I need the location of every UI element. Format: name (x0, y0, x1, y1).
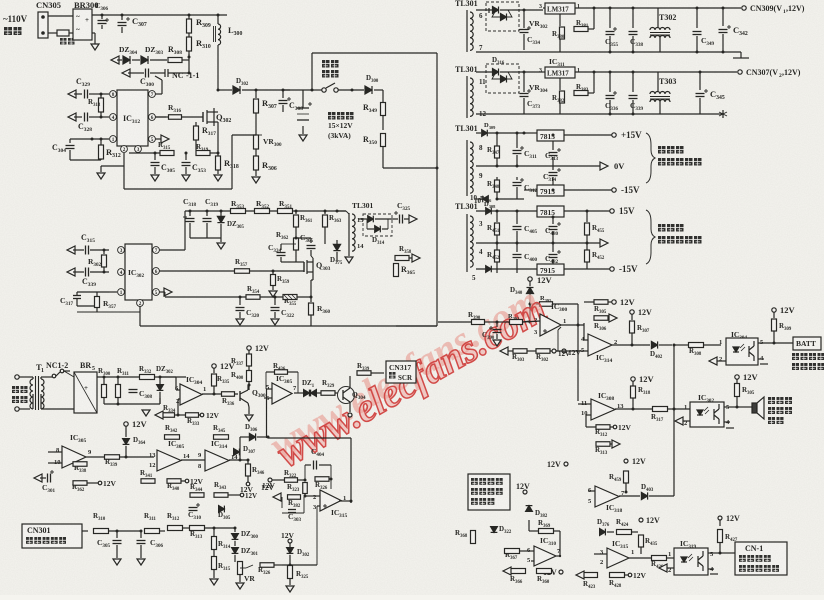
wire gnd row E1 (104, 403, 133, 405)
capacitor C405 (516, 210, 519, 213)
connector CN305 (38, 12, 48, 38)
resistor R335 (213, 368, 215, 373)
resistor R453 (586, 243, 588, 250)
resistor R365b (395, 247, 397, 262)
capacitor C313 (552, 134, 555, 137)
text battery low alarm (768, 397, 775, 404)
pot VR bottom (238, 562, 243, 575)
IC302 pin5 (153, 289, 160, 296)
capacitor C305b (116, 530, 119, 533)
wire row 211 (185, 210, 346, 212)
fuse F300 (48, 32, 57, 34)
wire Q304 emitter (349, 407, 351, 412)
opto2 emitter gnd (724, 421, 730, 423)
diode pair s2 (476, 71, 496, 73)
resistor R435 (640, 522, 642, 528)
resistor R319 (196, 151, 210, 156)
connector BATT box (793, 337, 821, 350)
wire to CN1 (720, 552, 735, 554)
resistor R305d (736, 379, 738, 383)
resistor R381 (574, 27, 588, 32)
IC318 wires (588, 490, 595, 492)
connector CN-1 box (735, 542, 787, 575)
opto3 emitter gnd (708, 568, 714, 570)
capacitor C342 (722, 7, 725, 10)
wire drain (214, 111, 218, 113)
wire IC318 left (568, 463, 588, 465)
resistor R315c (212, 557, 217, 570)
wire C317 loop (77, 291, 109, 293)
wire VR tap (232, 134, 256, 136)
wire C304 loop (70, 138, 92, 140)
bridge rectifier BR300 (73, 9, 92, 40)
opto LED (733, 347, 739, 352)
wire from bridge (92, 14, 227, 16)
text charge voltage (792, 353, 799, 360)
capacitor C480 (552, 216, 555, 219)
capacitor C336 (609, 71, 612, 74)
output -15V (612, 188, 616, 192)
relay contact NC-1-1 (160, 72, 165, 74)
IC314b wires (229, 459, 248, 461)
wire bottom s3 (476, 198, 537, 200)
wire node row3 (213, 527, 216, 530)
resistor R313 (100, 94, 102, 98)
capacitor C400 (516, 243, 518, 252)
bus bottom B (140, 325, 437, 327)
wire IC305u3 in (264, 397, 272, 399)
supply 12V E3 (288, 539, 292, 543)
wire o12V (552, 349, 556, 353)
ground below C306 (94, 40, 96, 44)
supply 12V R322 (268, 478, 272, 482)
resistor R312 (99, 145, 104, 159)
text mains input (12, 386, 19, 393)
text start switch (322, 60, 330, 68)
resistor R309b (772, 308, 776, 312)
IC312 body (117, 90, 148, 146)
wire fb IC305b (189, 437, 191, 460)
IC312 pin 6 (149, 114, 156, 121)
wire DZ to R309R310 node (188, 54, 190, 60)
capacitor C312 (516, 177, 518, 180)
T1 input terminals (15, 375, 19, 379)
supply 12V F1 (612, 300, 616, 304)
wire rect out s2 (512, 71, 543, 73)
IC302 pin7 (153, 247, 160, 254)
supply 12V IC318L (564, 462, 568, 466)
zener D364 (125, 456, 128, 459)
resistor R337 (247, 346, 251, 350)
diode D314a (368, 216, 374, 223)
wire trafo sec (358, 218, 367, 220)
wire R358 left (394, 257, 396, 259)
supply 12V mid (523, 490, 527, 494)
wire R423 chain (585, 574, 587, 576)
resistor R307b (630, 310, 634, 314)
resistor R325 (288, 566, 293, 579)
capacitor C349 (696, 7, 699, 10)
opto2 LED (697, 410, 703, 415)
diode D314b (367, 228, 374, 230)
IC315b wires (305, 495, 320, 497)
wire C301 to pin (55, 477, 58, 479)
IC312 pin 3 (135, 146, 142, 153)
opto3 LED (681, 557, 687, 562)
wire switch to D300 (338, 89, 364, 91)
regulator 7815 s3 (537, 130, 564, 141)
T1 windings (30, 376, 33, 378)
resistor R309 (188, 15, 190, 19)
capacitor C305 (154, 153, 156, 160)
resistor R451 (496, 211, 498, 222)
resistor R357v (95, 297, 100, 308)
wire E row1 gnd (133, 403, 160, 405)
capacitor C482 (552, 243, 554, 252)
wire bottom loop E2 (182, 495, 184, 509)
IC302 pin4 (118, 269, 125, 276)
resistor R348 (496, 177, 498, 180)
wire row3 right (240, 561, 246, 563)
IC302 pin6 (153, 268, 160, 275)
wire fb IC315c loop (593, 532, 595, 554)
capacitor C308r (282, 89, 285, 92)
supply 12V row2 (124, 422, 128, 426)
supply 12V spk (735, 375, 739, 379)
IC302 pin2 (137, 300, 144, 307)
IC305b wires (179, 437, 181, 444)
resistor R346 (247, 459, 250, 462)
ground elbow s1 (740, 52, 742, 58)
inductor L300 (217, 15, 219, 24)
supply 12V s4 (528, 277, 532, 281)
output CN309 (742, 6, 746, 10)
IC302 pin3 (118, 247, 125, 254)
wire opamp fb IC308 (584, 414, 586, 416)
regulator 7815 s4 (537, 206, 564, 217)
resistor R318b (632, 381, 634, 386)
IC312 pin 4 (110, 114, 117, 121)
capacitor C355 (609, 7, 612, 10)
resistor R382 (559, 84, 561, 90)
wire R459 node (625, 492, 627, 496)
supply 12V IC315 (639, 518, 643, 522)
resistor R360 (314, 297, 316, 300)
box rectifier DC fuse (468, 474, 510, 510)
capacitor C353 (185, 153, 187, 160)
opto3 transistor (697, 556, 699, 567)
wire pin2 down (178, 398, 180, 400)
IC312 pin 8 (110, 91, 117, 98)
wire trafo top (337, 210, 346, 212)
resistor R318 (217, 153, 219, 156)
output CN307 (738, 70, 742, 74)
mosfet Q303 (303, 262, 305, 272)
transformer TL301 winding (466, 10, 468, 52)
zener D375 (333, 244, 340, 250)
wire pin3 down (316, 506, 318, 565)
ground B trafo (348, 252, 350, 256)
brace s3 (646, 133, 655, 183)
winding s4 (466, 214, 468, 272)
wire mid s3 (476, 165, 545, 167)
mosfet Q302 (182, 116, 203, 118)
resistor R302 (103, 249, 106, 252)
junction dots top rail (101, 14, 104, 17)
output 15V s4 (610, 209, 614, 213)
opto3 collector (708, 552, 720, 554)
capacitor C322 (274, 296, 277, 299)
resistor R363 (324, 210, 327, 213)
rectifier dashed box D315 (486, 2, 519, 31)
opto2 collector (724, 406, 737, 408)
opto2 transistor (713, 409, 715, 420)
supply o12V left bot (559, 570, 563, 574)
wire D322 loop (473, 550, 494, 552)
capacitor C328 (68, 113, 76, 121)
resistor R310 (188, 33, 190, 37)
capacitor C373 (523, 72, 525, 92)
wire mid F right (559, 531, 561, 556)
ground DZ305 row (190, 237, 221, 239)
resistor R427 (719, 520, 721, 526)
supply 12V IC318 (624, 459, 628, 463)
capacitor C311 (516, 132, 519, 135)
wire to BATT (774, 342, 793, 344)
resistor R455 (586, 210, 589, 213)
wire CN301 out (82, 530, 88, 532)
capacitor C339b (67, 268, 75, 276)
resistor R380 (559, 20, 561, 26)
wire R305 left (584, 301, 594, 303)
wire rect out (512, 9, 543, 11)
regulator 7915 s4 (537, 264, 564, 275)
IC315c wires (594, 553, 607, 555)
wire 0V row (545, 165, 600, 167)
supply 12V IC308 (631, 377, 635, 381)
regulator LM317 IC311 (545, 67, 575, 78)
resistor R307 (255, 89, 258, 92)
wire pin2 down A (123, 153, 125, 166)
capacitor C338 (632, 7, 635, 10)
wire D403 right (649, 495, 674, 497)
winding s3 (466, 140, 468, 196)
transformer TL301 winding (466, 76, 468, 118)
IC312 pin 5 (149, 136, 156, 143)
transistor Q300 (239, 391, 241, 401)
IC312 pin 2 (121, 146, 128, 153)
brace s4 (646, 210, 655, 264)
capacitor C307 (121, 15, 123, 20)
IC305a wires (48, 451, 62, 453)
wire left col (63, 159, 65, 161)
wire D402 node (673, 344, 676, 347)
opto transistor (748, 346, 750, 357)
capacitor C300 input (122, 69, 130, 77)
capacitor C390 (496, 321, 499, 324)
resistor R361 (295, 210, 298, 213)
wire R317 to opto (673, 408, 690, 410)
wire bottom rail s2 (476, 113, 723, 115)
opto gnd (758, 358, 764, 360)
supply 12V CN1 (718, 516, 722, 520)
resistor R306 (254, 156, 259, 170)
regulator LM317 U301 (545, 3, 575, 14)
wire bridge bottom (92, 32, 95, 34)
capacitor C345 (699, 71, 702, 74)
capacitor C314 (552, 189, 555, 192)
wire loop E3 top (268, 437, 351, 439)
connector CN301 box (22, 524, 82, 548)
IC308 wires (577, 401, 579, 404)
wire NC to IC312 pin7 (168, 72, 189, 74)
wire big loop top (312, 52, 437, 54)
resistor R317 (195, 122, 197, 126)
speaker (752, 403, 757, 413)
ground pin2 rail (100, 166, 102, 172)
feedback R338 wire (87, 463, 94, 465)
opto3 in2 arrow (664, 567, 674, 569)
wire bottom rail s1 (476, 51, 741, 53)
opto wire out (758, 342, 775, 344)
wire bottom left F (563, 563, 578, 572)
capacitor C320 (239, 296, 242, 299)
opto wire in2 (714, 360, 726, 362)
capacitor C301 (34, 474, 42, 482)
resistor R359 (272, 270, 275, 273)
wire R350 down (383, 167, 437, 169)
resistor R400 (248, 366, 250, 370)
opto2 in2 arrow (680, 420, 690, 422)
resistor R347 (496, 133, 498, 146)
IC314c wires (584, 339, 588, 341)
IC310 wires (528, 550, 534, 552)
resistor R452 (496, 243, 498, 250)
text rectifier CT (658, 146, 666, 154)
wire R362 left (58, 482, 73, 484)
IC312 pin 7 (149, 91, 156, 98)
wire D306 vert (266, 389, 268, 438)
wire C404 right join (330, 479, 332, 489)
wire Q303 src (312, 276, 314, 280)
wire D375 top (336, 211, 338, 244)
output +15V (612, 133, 616, 137)
capacitor C339 (632, 71, 635, 74)
IC302 pin1 (118, 289, 125, 296)
junction Q302 source (214, 121, 218, 123)
diode pair top (476, 9, 496, 11)
text battery bank (328, 112, 336, 120)
wire right col 437 (396, 325, 437, 327)
wire mid s4 (476, 242, 600, 244)
asterisk s2 (722, 110, 724, 118)
IC312 pin 1 (110, 136, 117, 143)
output -15V s4 (610, 267, 614, 271)
IC300 wires (523, 321, 540, 322)
wire R344 box (189, 494, 191, 496)
battery stack (283, 89, 312, 91)
resistor R383 (574, 91, 588, 96)
pot VR300 (254, 135, 259, 149)
text inverter CT (658, 224, 666, 232)
capacitor C334 (523, 10, 525, 28)
IC302 body (125, 244, 152, 300)
wire pin2 bus (139, 306, 141, 312)
zener DZ305 (217, 216, 224, 222)
watermark www.elecfans.com (262, 277, 554, 475)
battery wire (302, 126, 304, 134)
wire BR5 out (97, 376, 186, 378)
capacitor C306c (140, 530, 143, 533)
wire R435 node (638, 531, 641, 533)
wire DZ junction to pin6 (160, 376, 176, 378)
wire opamp out E1 (202, 393, 238, 395)
diode top s4 (476, 210, 614, 212)
battery cells (302, 90, 304, 108)
wire row153 (129, 152, 160, 154)
supply 12V E1 (212, 364, 216, 368)
wire bus297 (165, 296, 246, 298)
wire bottom s4 (476, 268, 614, 270)
dashed box D314 (363, 214, 392, 236)
switch S300 (322, 88, 326, 92)
wire Q303 gate (250, 270, 304, 272)
wire NC1 to BR5 (64, 371, 74, 377)
rectifier dashed box D316 (486, 64, 519, 93)
wire top rail (48, 15, 73, 17)
SCR box CN317 (386, 361, 416, 383)
regulator 7915 s3 (537, 185, 564, 196)
transistor Q304 (338, 387, 355, 404)
wire node row E3 (282, 564, 317, 566)
wire Q300 emitter (248, 403, 249, 407)
wire 440 column (437, 322, 439, 326)
resistor R314b (213, 528, 215, 536)
